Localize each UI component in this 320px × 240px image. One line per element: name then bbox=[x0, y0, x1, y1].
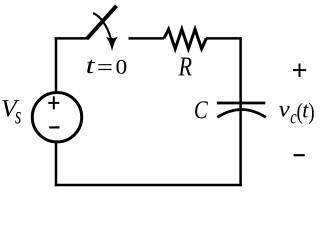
glyph ( of vc(t) label bbox=[297, 103, 302, 124]
glyph t of t=0 label bbox=[87, 60, 95, 74]
label C bbox=[195, 101, 208, 118]
wire bottom bbox=[55, 184, 242, 187]
voltage source Vs (circle) bbox=[32, 93, 81, 142]
polarity + of capacitor voltage bbox=[293, 64, 306, 77]
wire left rail (top segment) bbox=[55, 37, 58, 93]
wire right rail bbox=[239, 37, 242, 186]
glyph 0 of t=0 label bbox=[116, 60, 126, 74]
voltage source + sign bbox=[48, 96, 59, 109]
switch closing arrow arc bbox=[93, 13, 111, 40]
glyph ) of vc(t) label bbox=[309, 103, 314, 124]
capacitor C (top plate) bbox=[217, 102, 265, 105]
voltage source - sign bbox=[49, 126, 59, 128]
glyph V of Vs label bbox=[2, 100, 19, 117]
wire top (resistor to top-right corner) bbox=[206, 37, 242, 40]
wire left rail (bottom segment) bbox=[55, 142, 58, 186]
switch closing arrow head bbox=[106, 36, 119, 51]
glyph c subscript of vc(t) label bbox=[291, 114, 297, 123]
polarity - of capacitor voltage bbox=[294, 154, 305, 156]
glyph s of Vs label bbox=[15, 112, 21, 124]
glyph v of vc(t) label bbox=[279, 106, 290, 117]
glyph t of vc(t) label bbox=[303, 104, 309, 117]
label R bbox=[179, 58, 192, 76]
glyph = of t=0 label bbox=[98, 64, 111, 70]
resistor R (zigzag) bbox=[164, 29, 206, 49]
wire top (switch contact to resistor) bbox=[129, 37, 165, 40]
switch blade bbox=[87, 6, 117, 39]
wire top (corner to switch hinge) bbox=[55, 37, 88, 40]
capacitor C (curved bottom plate) bbox=[217, 110, 265, 118]
